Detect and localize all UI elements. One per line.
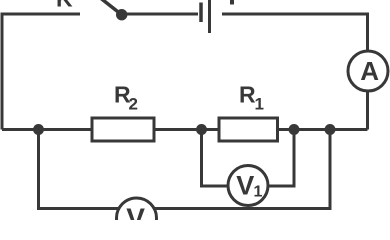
junction node dot on switch <box>116 9 127 20</box>
battery positive plate (long) <box>208 0 211 33</box>
svg-text:A: A <box>360 56 379 86</box>
resistor R2 <box>92 118 154 141</box>
junction node dot before R1 (V1 branch) <box>196 124 207 135</box>
voltmeter V1 circle <box>228 166 268 206</box>
resistor R1 <box>219 118 278 141</box>
wire voltmeter V loop (left down, bottom, right up) <box>39 130 331 209</box>
svg-text:V: V <box>126 203 145 221</box>
junction node dot left (V branch) <box>33 124 44 135</box>
wire middle horizontal bus <box>2 128 368 131</box>
junction node dot right (V branch) <box>325 124 336 135</box>
svg-text:K: K <box>56 0 73 12</box>
svg-text:2: 2 <box>129 95 138 114</box>
junction node dot after R1 (V1 branch) <box>289 124 300 135</box>
switch K blade <box>99 0 122 15</box>
battery plus sign (cut off at top) <box>230 0 234 5</box>
wire top-left from switch to left corner and down left side <box>2 14 80 130</box>
wire from battery to top-right corner and down to ammeter <box>222 14 368 130</box>
ammeter A circle <box>348 51 388 91</box>
svg-text:V: V <box>236 170 254 200</box>
wire voltmeter V1 loop under R1 <box>202 130 295 187</box>
svg-text:1: 1 <box>254 184 263 201</box>
voltmeter V circle (cut off at bottom) <box>117 198 157 238</box>
wire from switch dot to battery <box>122 13 198 16</box>
svg-text:R: R <box>239 81 256 107</box>
svg-text:1: 1 <box>255 95 264 114</box>
battery negative plate (short) <box>199 3 203 23</box>
